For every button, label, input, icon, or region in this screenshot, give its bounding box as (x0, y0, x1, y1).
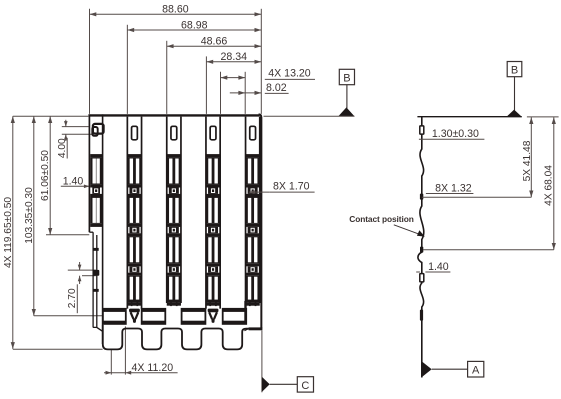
svg-text:A: A (472, 365, 480, 377)
extension line 11.20 left (110, 350, 112, 375)
svg-text:4X 13.20: 4X 13.20 (268, 68, 311, 80)
svg-text:28.34: 28.34 (221, 51, 248, 63)
dimension 88.60 (90, 4, 262, 17)
dimension 8X 1.70 (249, 181, 315, 194)
extension line 68.04 (423, 249, 554, 251)
body left edge upper (88, 114, 90, 232)
extension line body right (260, 9, 262, 114)
svg-text:103.35±0.30: 103.35±0.30 (24, 187, 35, 244)
svg-text:2.70: 2.70 (67, 288, 78, 308)
dimension 2.70 (67, 262, 96, 313)
extension line 11.20 right (124, 326, 126, 374)
left strip tick lower (93, 289, 99, 292)
body bottom right diag (244, 329, 248, 331)
right view profile line (418, 116, 424, 377)
datum B left leader (346, 85, 348, 109)
column 1 right wall (102, 114, 104, 344)
column 1 contact slots (90, 154, 102, 227)
body left edge step (89, 231, 93, 233)
svg-text:8X 1.32: 8X 1.32 (435, 182, 472, 194)
datum A leader (432, 368, 468, 370)
dimension 5X 41.48 (522, 117, 533, 197)
dimension 4X 13.20 (221, 68, 316, 80)
dimension 1.40 right view (416, 261, 450, 273)
dimension 1.30±0.30 (419, 128, 485, 140)
left strip outer wall (92, 232, 94, 327)
dimension 68.98 (127, 19, 261, 32)
svg-text:4X 11.20: 4X 11.20 (131, 362, 173, 374)
datum B left triangle (339, 107, 355, 116)
extension line col2 left (126, 25, 128, 114)
svg-text:4X 119.65±0.50: 4X 119.65±0.50 (3, 197, 14, 268)
column1 latch pocket outer (93, 124, 104, 134)
pad 3 (181, 309, 206, 324)
svg-text:B: B (343, 73, 350, 85)
pad4 right thick wall (244, 301, 246, 324)
datum A frame (468, 361, 484, 377)
extension line body top left (13, 115, 89, 117)
body right edge (259, 114, 262, 328)
extension line col5 left (244, 72, 246, 114)
left strip bottom jog (93, 327, 102, 331)
pad 1 (102, 309, 126, 324)
svg-text:Contact position: Contact position (349, 214, 413, 224)
datum B right leader (514, 77, 516, 111)
right view top surface extension (527, 116, 559, 118)
dimension 8X 1.32 (426, 182, 474, 194)
svg-text:88.60: 88.60 (162, 4, 189, 16)
column1 latch pocket inner (92, 127, 97, 136)
left strip inner wall (96, 235, 98, 327)
datum B right frame (507, 62, 522, 77)
left strip tick upper (93, 248, 99, 251)
dimension 4.00 (57, 120, 94, 159)
left strip black square (93, 270, 99, 276)
datum C extension (261, 331, 263, 393)
svg-text:8X 1.70: 8X 1.70 (273, 181, 310, 193)
extension line col1 left (89, 9, 91, 114)
extension line col3 left (166, 41, 168, 114)
svg-text:C: C (301, 380, 309, 392)
profile slot 1.30 (420, 126, 424, 134)
contact position leader (394, 225, 425, 237)
extension line leg bottom (13, 348, 103, 350)
column 3 (167, 117, 181, 307)
column 4 (206, 117, 220, 309)
extension line slot4 left (220, 72, 222, 114)
right view top surface (417, 116, 521, 118)
dimension 4X 119.65±0.50 (3, 116, 15, 349)
pad 4 (222, 309, 247, 324)
svg-text:1.30±0.30: 1.30±0.30 (432, 128, 479, 140)
svg-text:48.66: 48.66 (201, 36, 228, 48)
dimension 8.02 (230, 82, 289, 95)
extension line col4 left (205, 56, 207, 114)
datum B left surface line (264, 115, 355, 117)
svg-text:4.00: 4.00 (57, 138, 68, 158)
datum A triangle (422, 362, 432, 377)
dimension 61.06±0.50 (40, 116, 89, 235)
svg-text:4X 68.04: 4X 68.04 (544, 165, 555, 206)
svg-text:1.40: 1.40 (428, 261, 449, 273)
dimension 4X 68.04 (544, 117, 556, 250)
solder tail marker at x=213.05 (208, 309, 219, 323)
svg-text:5X 41.48: 5X 41.48 (522, 140, 533, 181)
datum C leader (270, 383, 298, 385)
profile contact tick middle (420, 247, 423, 253)
svg-text:8.02: 8.02 (266, 82, 287, 94)
datum B left frame (339, 69, 354, 84)
profile slot 1.40 (420, 274, 424, 282)
body top edge (88, 114, 259, 116)
dimension 4X 11.20 (104, 362, 178, 375)
svg-text:61.06±0.50: 61.06±0.50 (40, 150, 51, 201)
datum C frame (297, 377, 313, 392)
dimension 1.40 left view (61, 176, 90, 189)
dimension 103.35±0.30 (24, 116, 102, 316)
svg-text:68.98: 68.98 (181, 19, 208, 31)
svg-text:B: B (511, 65, 518, 77)
contact position label (349, 214, 413, 224)
dimension 48.66 (167, 36, 262, 49)
extension line 41.48 (422, 196, 532, 198)
bottom scallop outline (103, 325, 249, 349)
svg-text:1.40: 1.40 (63, 176, 84, 188)
dimension 28.34 (206, 51, 261, 64)
column 5 (246, 117, 260, 307)
column 2 (127, 117, 141, 309)
datum C triangle (262, 377, 270, 392)
datum B right triangle (507, 110, 522, 117)
solder tail marker at x=134.45 (129, 309, 140, 323)
body bottom right band (249, 327, 263, 330)
profile lower filled slot (420, 310, 423, 321)
pad 2 (141, 309, 166, 324)
profile contact tick upper (420, 194, 423, 200)
